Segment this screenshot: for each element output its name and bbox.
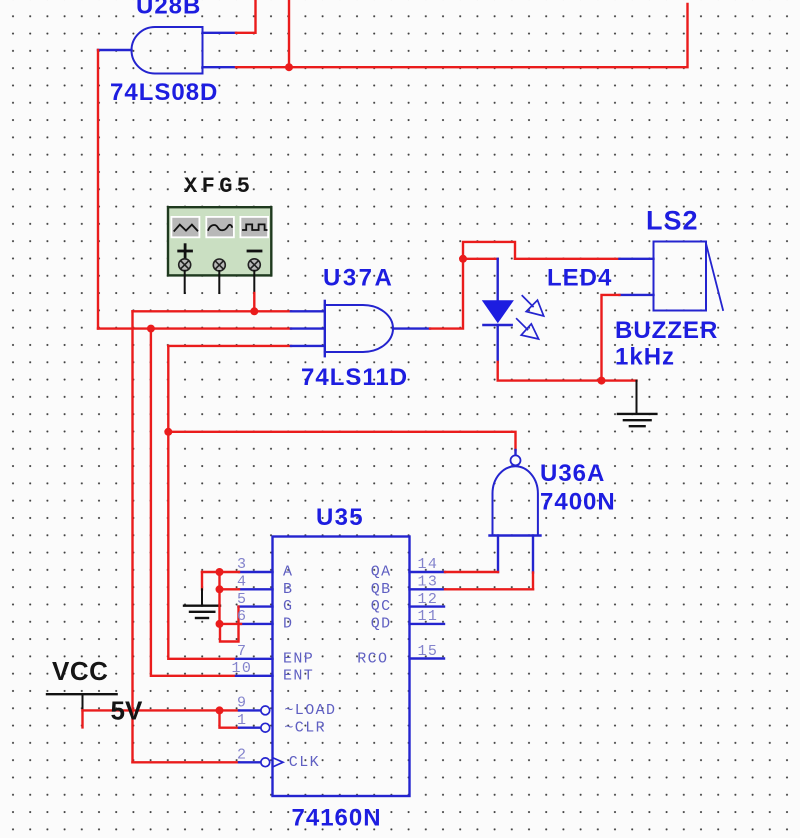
wire U28B input2 stub [203,66,237,68]
buzzer box [654,242,707,311]
svg-text:7400N: 7400N [540,489,616,516]
LED cathode bar [484,324,512,327]
wire vertical x=98 from U28B output down to U37A input2 [97,50,99,329]
wire U28B input1 red to riser [236,0,256,33]
wire CLK [133,761,240,763]
LED arrow 2 [517,319,528,330]
xfg5 body [168,207,271,275]
wire buzzer pin2 [620,294,654,296]
wire A to ground [201,572,203,589]
pin names inside U35 [283,564,392,771]
pin 10 ENT wire [236,675,273,677]
pin 4 B wire [239,588,273,590]
svg-text:9: 9 [237,695,247,712]
svg-text:U37A: U37A [323,265,394,292]
xfg5 minus sign [248,250,261,253]
ground (buzzer) [618,414,657,426]
bubble CLK [261,758,270,767]
pin 5 G wire + loop [239,605,273,607]
wire U37A output [393,327,430,329]
svg-text:2: 2 [237,747,247,764]
svg-text:LS2: LS2 [646,206,699,236]
wire junction to ground [602,379,637,381]
svg-text:QB: QB [371,581,392,598]
chip box U35 [273,537,410,797]
junction input2/ENT [147,325,155,333]
svg-text:B: B [283,581,293,598]
wire vertical x=289 from top edge [288,0,290,67]
svg-text:U28B: U28B [136,0,201,20]
wire NAND input2 to QB [532,536,534,573]
wire U37A input1 [133,310,292,312]
svg-text:74LS11D: 74LS11D [301,364,408,391]
pin 12 QC stub [410,605,445,607]
clock triangle [273,758,284,767]
wire ground net vertical [218,572,220,624]
wire U28B output stub [98,49,132,51]
svg-text:D: D [283,615,293,632]
xfg5 plus sign [179,250,192,253]
svg-text:ENP: ENP [283,650,314,667]
svg-text:5V: 5V [111,696,143,726]
bubble ~LOAD [261,706,270,715]
svg-text:10: 10 [232,660,253,677]
junction buzzer/led ground net [598,377,606,385]
svg-text:QC: QC [371,598,392,615]
buzzer diagonal [706,244,723,311]
svg-text:A: A [283,564,293,581]
xfg5 button square-wave [240,217,268,237]
svg-text:14: 14 [418,556,439,573]
LED triangle [482,300,514,323]
VCC bar [47,693,117,695]
nand-gate U36A input bar [490,534,541,536]
wire vertical x=150.9 to ENT [151,329,236,676]
wire junction to LED anode [463,258,498,260]
xfg5 terminal common [213,259,225,271]
xfg5 stub wires [184,271,186,293]
svg-text:CLK: CLK [289,754,320,771]
pin 15 RCO stub [410,657,445,659]
wire xfg5 minus terminal to U37A input1 net [253,293,255,311]
svg-text:11: 11 [418,608,439,625]
svg-text:7: 7 [237,643,247,660]
wire NAND input1 to QA [497,536,499,573]
svg-text:4: 4 [237,574,247,591]
wire LED cathode down [497,325,499,362]
xfg5 button triangle-wave [171,217,199,237]
nand-gate U36A body [493,466,538,535]
svg-text:QD: QD [371,615,392,632]
wire jog over anode [463,242,515,259]
svg-text:XFG5: XFG5 [184,174,254,199]
xfg5 button sine-wave [206,217,234,237]
wire U37A input3 [168,345,291,347]
junction LED net [459,255,467,263]
svg-text:12: 12 [418,591,439,608]
svg-text:QA: QA [371,564,392,581]
junction xfg5/input1 [250,307,258,315]
svg-text:74160N: 74160N [292,805,382,832]
svg-text:~CLR: ~CLR [284,719,326,736]
wire to buzzer pin1 [515,258,620,260]
pin 7 ENP wire [236,658,273,660]
svg-text:G: G [283,598,293,615]
svg-text:3: 3 [237,556,247,573]
svg-text:13: 13 [418,574,439,591]
pin numbers [232,556,439,763]
pin 14 QA wire [410,571,446,573]
wire 5V to ~LOAD [83,709,240,711]
svg-text:LED4: LED4 [547,265,612,292]
and-gate U28B body [132,27,203,74]
xfg5 terminal - [248,259,260,271]
svg-text:5: 5 [237,591,247,608]
wire long vertical x=132.5 input1 to CLK [131,311,133,762]
bubble ~CLR [261,723,270,732]
svg-text:74LS08D: 74LS08D [110,79,218,106]
svg-text:VCC: VCC [52,656,108,686]
svg-text:RCO: RCO [357,650,388,667]
svg-text:U35: U35 [316,504,364,531]
svg-text:1: 1 [237,712,247,729]
junction top wire [285,63,293,71]
svg-text:1kHz: 1kHz [615,344,675,371]
svg-text:15: 15 [418,643,439,660]
svg-text:BUZZER: BUZZER [615,317,718,344]
LED arrow 1 [522,296,533,307]
and-gate U37A input bar [324,301,326,356]
pin 11 QD stub [410,623,445,625]
wire to ~CLR [220,710,240,727]
svg-text:ENT: ENT [283,667,314,684]
wire VCC stub below [81,710,83,727]
and-gate U37A body [325,305,393,352]
NAND bubble [511,455,521,465]
pin 13 QB wire [410,588,446,590]
xfg5 terminal + [179,259,191,271]
svg-text:U36A: U36A [540,460,605,487]
wire U28B input1 stub [203,32,237,34]
svg-text:~LOAD: ~LOAD [284,702,336,719]
pin 6 D wire [241,623,273,625]
wire NAND output to ENP net [168,432,515,450]
svg-text:6: 6 [237,608,247,625]
wire vertical x=168.3 to ENP [168,346,236,659]
pin 3 A wire [239,571,273,573]
ground (U35 inputs) [184,606,220,618]
junction NAND/ENP [164,428,172,436]
wire U37A input2 [98,327,291,329]
wire U28B input2 red across top [236,4,688,67]
